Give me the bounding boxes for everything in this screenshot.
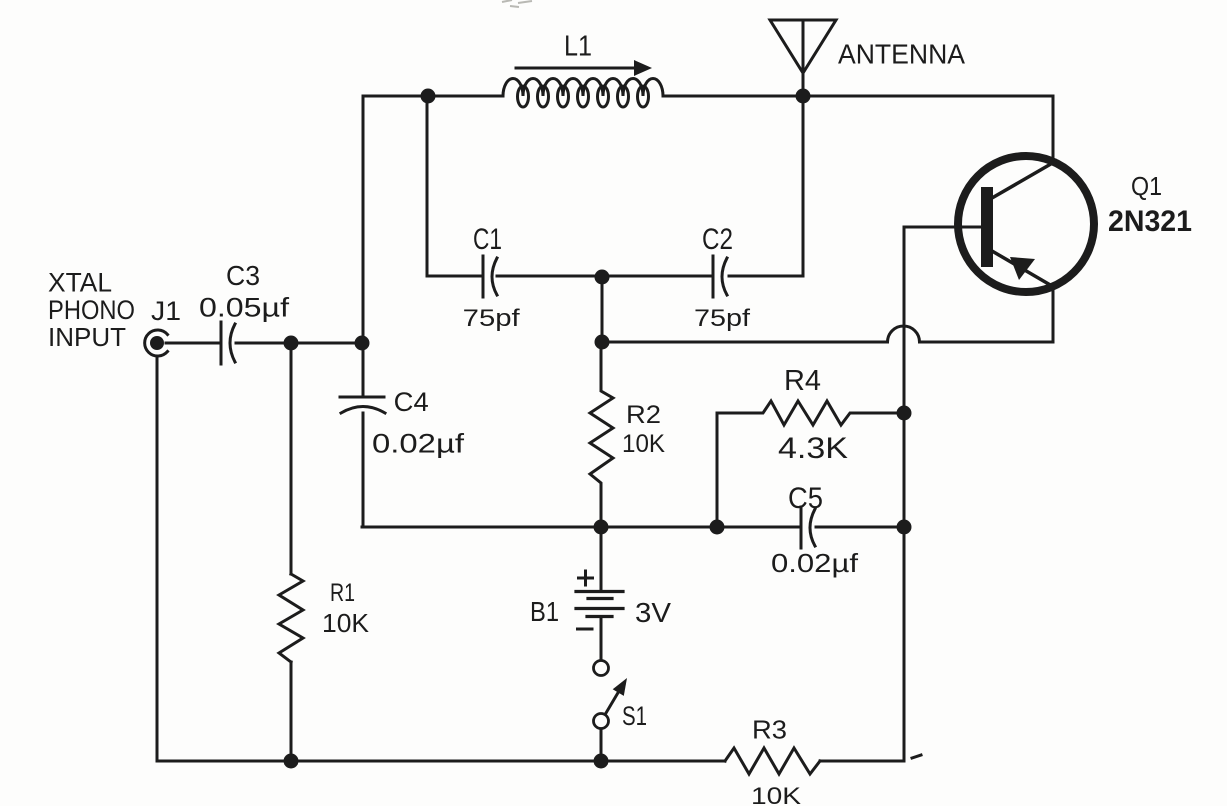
svg-text:75pf: 75pf xyxy=(694,305,750,332)
svg-text:10K: 10K xyxy=(622,430,665,458)
svg-text:R4: R4 xyxy=(784,365,821,397)
svg-text:B1: B1 xyxy=(530,596,559,627)
svg-text:Q1: Q1 xyxy=(1131,171,1162,201)
svg-text:0.02µf: 0.02µf xyxy=(372,429,465,459)
svg-text:R2: R2 xyxy=(626,401,661,429)
svg-text:J1: J1 xyxy=(151,296,181,326)
svg-text:PHONO: PHONO xyxy=(48,295,135,325)
svg-text:C3: C3 xyxy=(226,260,260,291)
svg-text:10K: 10K xyxy=(751,783,801,806)
svg-text:0.05µf: 0.05µf xyxy=(199,293,290,323)
svg-text:R1: R1 xyxy=(330,579,355,607)
svg-text:INPUT: INPUT xyxy=(48,322,126,352)
svg-text:C2: C2 xyxy=(702,223,733,256)
svg-text:C5: C5 xyxy=(788,482,823,515)
svg-text:75pf: 75pf xyxy=(463,305,520,332)
svg-text:0.02µf: 0.02µf xyxy=(771,548,859,578)
svg-text:10K: 10K xyxy=(322,608,370,638)
svg-text:R3: R3 xyxy=(752,715,787,745)
svg-text:XTAL: XTAL xyxy=(48,268,112,298)
svg-text:3V: 3V xyxy=(635,597,671,628)
svg-text:C4: C4 xyxy=(394,387,429,417)
svg-text:C1: C1 xyxy=(473,223,502,256)
svg-text:2N321: 2N321 xyxy=(1108,205,1192,238)
svg-text:S1: S1 xyxy=(622,701,647,731)
svg-text:L1: L1 xyxy=(564,31,592,63)
svg-text:ANTENNA: ANTENNA xyxy=(838,39,965,70)
svg-text:4.3K: 4.3K xyxy=(778,432,848,465)
